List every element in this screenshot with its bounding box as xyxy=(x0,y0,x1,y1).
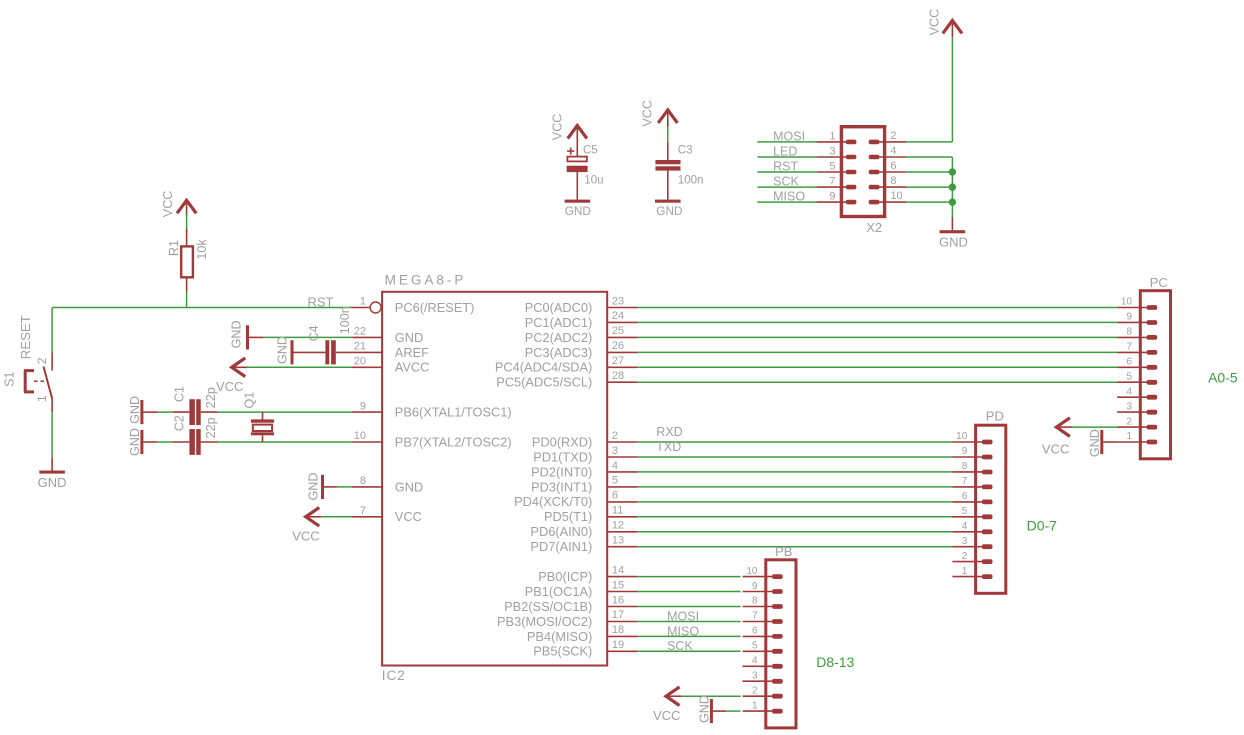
PD pin 2 pad xyxy=(982,559,993,564)
svg-text:26: 26 xyxy=(612,340,624,352)
X2 pin 6 pad xyxy=(869,170,880,175)
svg-text:GND: GND xyxy=(565,204,591,218)
svg-text:C5: C5 xyxy=(583,145,598,157)
PB pin 9 stub xyxy=(743,591,773,593)
svg-text:11: 11 xyxy=(612,505,623,517)
PD pin 4 stub xyxy=(952,531,982,533)
PC pin 2 stub xyxy=(1117,426,1147,428)
svg-text:VCC: VCC xyxy=(928,9,942,36)
PC pin 10 stub xyxy=(1117,307,1147,309)
svg-text:MOSI: MOSI xyxy=(773,129,805,143)
PB pin 4 pad xyxy=(772,664,783,669)
X2 pin 4 pad xyxy=(869,155,880,160)
svg-text:VCC: VCC xyxy=(653,708,680,723)
PD pin 8 stub xyxy=(952,471,982,473)
PB pin 2 stub xyxy=(743,695,773,697)
PB pin 1 pad xyxy=(772,709,783,714)
svg-text:TXD: TXD xyxy=(656,440,681,454)
ground (C2) xyxy=(140,430,143,454)
capacitor C1 xyxy=(172,411,189,413)
svg-text:MISO: MISO xyxy=(667,624,699,638)
PD pin 1 pad xyxy=(982,574,993,579)
PC pin 3 stub xyxy=(1117,411,1147,413)
IC2 pin 17 stub xyxy=(607,621,637,623)
svg-text:VCC: VCC xyxy=(1042,442,1069,457)
power flag VCC (R1) xyxy=(177,200,196,213)
X2 pin 7 pad xyxy=(846,185,857,190)
PC pin 4 stub xyxy=(1117,396,1147,398)
IC2 pin 25 stub xyxy=(607,336,637,338)
wire xyxy=(637,531,952,533)
svg-text:7: 7 xyxy=(360,505,366,517)
svg-text:10: 10 xyxy=(354,430,366,442)
wire xyxy=(637,621,741,623)
svg-text:RESET: RESET xyxy=(18,315,33,359)
wire xyxy=(637,336,1117,338)
wire xyxy=(337,486,352,488)
svg-text:SCK: SCK xyxy=(667,639,693,653)
svg-text:2: 2 xyxy=(612,430,618,442)
X2 pin 2 stub xyxy=(879,141,906,143)
IC2 pin 18 stub xyxy=(607,635,637,637)
svg-text:1: 1 xyxy=(360,296,366,308)
wire xyxy=(637,591,741,593)
X2 pin 5 stub xyxy=(817,171,847,173)
X2 pin 5 pad xyxy=(846,170,857,175)
power flag VCC (PC pin 2) xyxy=(1056,418,1070,437)
X2 pin 7 stub xyxy=(817,186,847,188)
PB pin 7 stub xyxy=(743,621,773,623)
PC pin 7 stub xyxy=(1117,351,1147,353)
PB pin 9 pad xyxy=(772,589,783,594)
wire net LED xyxy=(758,156,817,158)
PB pin 5 pad xyxy=(772,649,783,654)
svg-text:1: 1 xyxy=(829,130,835,142)
svg-text:9: 9 xyxy=(1126,312,1132,323)
X2 pin 4 stub xyxy=(879,156,906,158)
PC pin 6 stub xyxy=(1117,366,1147,368)
wire xyxy=(637,635,741,637)
svg-text:7: 7 xyxy=(1126,342,1132,353)
PC pin 3 pad xyxy=(1147,410,1158,415)
svg-text:10k: 10k xyxy=(195,239,209,260)
IC2 pin 22 stub xyxy=(352,336,382,338)
svg-text:10: 10 xyxy=(956,431,968,442)
wire xyxy=(263,336,352,338)
svg-text:1: 1 xyxy=(35,395,49,402)
svg-text:PD4(XCK/T0): PD4(XCK/T0) xyxy=(514,494,592,509)
wire xyxy=(186,214,188,233)
IC2 pin 6 stub xyxy=(607,501,637,503)
PC pin 9 pad xyxy=(1147,320,1158,325)
svg-text:2: 2 xyxy=(962,551,968,562)
wire net RST xyxy=(52,307,352,309)
power flag VCC (C5) xyxy=(568,126,587,139)
svg-text:1: 1 xyxy=(962,566,968,577)
svg-text:VCC: VCC xyxy=(216,379,243,394)
X2 pin 1 pad xyxy=(846,140,857,145)
PC pin 9 stub xyxy=(1117,321,1147,323)
wire xyxy=(186,292,188,308)
svg-text:PD2(INT0): PD2(INT0) xyxy=(531,464,592,479)
svg-text:3: 3 xyxy=(752,671,758,682)
svg-text:24: 24 xyxy=(612,310,624,322)
svg-text:13: 13 xyxy=(612,535,624,547)
IC2 pin 14 stub xyxy=(607,576,637,578)
wire X2 pin 8 xyxy=(906,186,952,188)
wire xyxy=(726,710,741,712)
wire xyxy=(637,546,952,548)
PD pin 2 stub xyxy=(952,561,982,563)
power flag VCC (X2) xyxy=(943,20,962,33)
svg-text:PB5(SCK): PB5(SCK) xyxy=(533,644,592,659)
wire xyxy=(637,501,952,503)
svg-text:PD6(AIN0): PD6(AIN0) xyxy=(530,524,592,539)
svg-text:C1: C1 xyxy=(173,386,187,402)
svg-text:6: 6 xyxy=(890,160,896,172)
ground (X2) xyxy=(951,217,953,230)
svg-text:2: 2 xyxy=(35,357,49,364)
connector PD xyxy=(976,425,1006,593)
svg-text:100n: 100n xyxy=(338,306,352,334)
svg-text:7: 7 xyxy=(962,476,968,487)
svg-text:5: 5 xyxy=(962,506,968,517)
svg-text:1: 1 xyxy=(752,700,758,711)
svg-text:GND: GND xyxy=(128,428,142,456)
wire xyxy=(637,381,1117,383)
svg-text:12: 12 xyxy=(612,520,624,532)
wire xyxy=(637,351,1117,353)
svg-text:10: 10 xyxy=(1121,297,1133,308)
svg-text:C2: C2 xyxy=(173,415,187,431)
wire X2 pin 10 xyxy=(906,201,952,203)
IC2 pin 27 stub xyxy=(607,366,637,368)
PD pin 1 stub xyxy=(952,576,982,578)
svg-text:19: 19 xyxy=(612,639,624,651)
ground (C1) xyxy=(140,400,143,424)
svg-text:PB6(XTAL1/TOSC1): PB6(XTAL1/TOSC1) xyxy=(395,405,512,420)
svg-text:GND: GND xyxy=(395,479,423,494)
PB pin 5 stub xyxy=(743,650,773,652)
PB pin 8 pad xyxy=(772,604,783,609)
svg-text:PC: PC xyxy=(1150,275,1168,290)
svg-text:PC3(ADC3): PC3(ADC3) xyxy=(525,345,593,360)
svg-text:GND: GND xyxy=(230,320,244,348)
svg-text:8: 8 xyxy=(752,596,758,607)
IC2 pin 10 stub xyxy=(352,441,382,443)
IC2 pin 15 stub xyxy=(607,591,637,593)
power flag VCC (PB pin 2) xyxy=(666,687,680,706)
wire xyxy=(682,695,741,697)
wire XTAL1 xyxy=(218,411,353,413)
ground (pin 22) xyxy=(246,325,249,349)
PB pin 1 stub xyxy=(743,710,773,712)
PD pin 3 pad xyxy=(982,544,993,549)
PC pin 8 stub xyxy=(1117,336,1147,338)
svg-text:22: 22 xyxy=(354,326,366,338)
svg-text:X2: X2 xyxy=(866,220,882,235)
PD pin 10 pad xyxy=(982,440,993,445)
IC2 pin 2 stub xyxy=(607,441,637,443)
capacitor C3 xyxy=(655,160,680,164)
connector X2 xyxy=(841,127,884,217)
svg-text:3: 3 xyxy=(1126,401,1132,412)
capacitor C5 (polarized) xyxy=(570,148,572,155)
wire xyxy=(637,307,1117,309)
PC pin 6 pad xyxy=(1147,365,1158,370)
switch S1 xyxy=(51,352,53,370)
svg-text:9: 9 xyxy=(829,191,835,203)
svg-text:PC0(ADC0): PC0(ADC0) xyxy=(525,300,593,315)
PC pin 5 pad xyxy=(1147,380,1158,385)
PD pin 4 pad xyxy=(982,529,993,534)
X2 pin 9 pad xyxy=(846,200,857,205)
svg-text:MEGA8-P: MEGA8-P xyxy=(385,273,467,288)
PC pin 4 pad xyxy=(1147,395,1158,400)
svg-text:GND: GND xyxy=(38,475,67,490)
svg-text:A0-5: A0-5 xyxy=(1208,369,1238,385)
svg-text:S1: S1 xyxy=(3,371,17,386)
svg-text:C3: C3 xyxy=(678,145,693,157)
PB pin 6 stub xyxy=(743,635,773,637)
svg-text:PC2(ADC2): PC2(ADC2) xyxy=(525,330,593,345)
svg-text:6: 6 xyxy=(962,491,968,502)
wire xyxy=(637,441,952,443)
IC2 pin 28 stub xyxy=(607,381,637,383)
svg-text:4: 4 xyxy=(962,521,968,532)
svg-text:PB3(MOSI/OC2): PB3(MOSI/OC2) xyxy=(497,614,592,629)
wire xyxy=(637,471,952,473)
wire xyxy=(667,123,669,127)
IC2 pin 19 stub xyxy=(607,650,637,652)
junction xyxy=(949,168,956,175)
X2 pin 6 stub xyxy=(879,171,906,173)
PB pin 10 stub xyxy=(743,576,773,578)
svg-text:MOSI: MOSI xyxy=(667,610,699,624)
IC2 pin 1 stub (/RESET bubble) xyxy=(352,307,370,309)
svg-text:4: 4 xyxy=(752,656,758,667)
svg-text:1: 1 xyxy=(1126,431,1132,442)
svg-text:AVCC: AVCC xyxy=(395,360,430,375)
PC pin 7 pad xyxy=(1147,350,1158,355)
IC2 pin 13 stub xyxy=(607,546,637,548)
svg-text:18: 18 xyxy=(612,624,624,636)
svg-text:2: 2 xyxy=(752,685,758,696)
PB pin 8 stub xyxy=(743,606,773,608)
PB pin 4 stub xyxy=(743,665,773,667)
ground (pin 8) xyxy=(321,475,324,499)
junction xyxy=(949,183,956,190)
svg-text:10: 10 xyxy=(890,190,902,202)
connector PC xyxy=(1140,291,1170,459)
junction xyxy=(949,198,956,205)
PD pin 5 pad xyxy=(982,514,993,519)
svg-text:10: 10 xyxy=(746,566,758,577)
svg-text:4: 4 xyxy=(890,145,896,157)
ground (C4) xyxy=(291,340,294,364)
wire xyxy=(637,576,741,578)
svg-text:VCC: VCC xyxy=(292,529,319,544)
svg-text:8: 8 xyxy=(890,175,896,187)
PB pin 7 pad xyxy=(772,619,783,624)
IC2 pin 5 stub xyxy=(607,486,637,488)
svg-text:D0-7: D0-7 xyxy=(1027,517,1058,533)
svg-text:5: 5 xyxy=(1126,371,1132,382)
svg-text:VCC: VCC xyxy=(641,100,655,127)
power flag VCC (C3) xyxy=(658,110,677,123)
wire X2 pin 6 xyxy=(906,171,952,173)
svg-text:16: 16 xyxy=(612,594,624,606)
svg-text:15: 15 xyxy=(612,579,624,591)
svg-text:SCK: SCK xyxy=(773,175,799,189)
svg-text:PC1(ADC1): PC1(ADC1) xyxy=(525,315,593,330)
svg-text:C4: C4 xyxy=(307,325,321,341)
svg-text:LED: LED xyxy=(773,145,797,159)
wire xyxy=(637,366,1117,368)
svg-text:7: 7 xyxy=(829,176,835,188)
svg-text:PB4(MISO): PB4(MISO) xyxy=(527,629,592,644)
PD pin 9 stub xyxy=(952,456,982,458)
X2 pin 2 pad xyxy=(869,140,880,145)
PB pin 10 pad xyxy=(772,574,783,579)
wire xyxy=(321,516,352,518)
IC2 pin 7 stub xyxy=(352,516,382,518)
wire xyxy=(637,650,741,652)
resistor R1 xyxy=(186,229,188,246)
PD pin 8 pad xyxy=(982,470,993,475)
IC2 pin 16 stub xyxy=(607,606,637,608)
svg-text:2: 2 xyxy=(1126,416,1132,427)
svg-text:PC5(ADC5/SCL): PC5(ADC5/SCL) xyxy=(496,375,592,390)
svg-text:AREF: AREF xyxy=(395,345,429,360)
svg-text:3: 3 xyxy=(829,146,835,158)
IC2 pin 20 stub xyxy=(352,366,382,368)
svg-text:PD1(TXD): PD1(TXD) xyxy=(533,449,592,464)
svg-text:VCC: VCC xyxy=(395,509,422,524)
svg-text:3: 3 xyxy=(612,445,618,457)
PC pin 10 pad xyxy=(1147,305,1158,310)
PB pin 6 pad xyxy=(772,634,783,639)
PD pin 5 stub xyxy=(952,516,982,518)
IC2 pin 4 stub xyxy=(607,471,637,473)
svg-text:PD: PD xyxy=(986,408,1004,423)
svg-text:PB0(ICP): PB0(ICP) xyxy=(538,569,592,584)
svg-text:5: 5 xyxy=(752,641,758,652)
wire xyxy=(576,138,578,157)
wire xyxy=(157,411,172,413)
ground (C3) xyxy=(655,200,681,203)
wire xyxy=(247,366,352,368)
svg-text:GND: GND xyxy=(656,204,682,218)
wire net MISO xyxy=(758,201,817,203)
ground (C5) xyxy=(565,200,591,203)
svg-text:6: 6 xyxy=(1126,357,1132,368)
wire xyxy=(637,606,741,608)
X2 pin 3 stub xyxy=(817,156,847,158)
svg-text:17: 17 xyxy=(612,609,624,621)
IC2 pin 24 stub xyxy=(607,321,637,323)
X2 pin 10 pad xyxy=(869,200,880,205)
power flag VCC (pin 7) xyxy=(306,508,320,527)
svg-text:4: 4 xyxy=(1126,386,1132,397)
PD pin 7 stub xyxy=(952,486,982,488)
svg-text:28: 28 xyxy=(612,370,624,382)
wire net MOSI xyxy=(758,141,817,143)
wire GND rail X2 xyxy=(906,156,952,158)
svg-text:6: 6 xyxy=(752,626,758,637)
svg-text:GND: GND xyxy=(698,695,712,723)
PD pin 9 pad xyxy=(982,455,993,460)
svg-text:R1: R1 xyxy=(167,240,181,256)
IC2 pin 3 stub xyxy=(607,456,637,458)
PB pin 3 stub xyxy=(743,680,773,682)
crystal Q1 xyxy=(262,412,264,420)
svg-text:VCC: VCC xyxy=(551,114,565,141)
wire xyxy=(637,321,1117,323)
connector PB xyxy=(766,560,796,728)
svg-text:RST: RST xyxy=(308,295,334,310)
svg-text:8: 8 xyxy=(360,475,366,487)
svg-text:PD5(T1): PD5(T1) xyxy=(544,509,592,524)
svg-text:GND: GND xyxy=(1088,429,1102,457)
svg-text:PB2(SS/OC1B): PB2(SS/OC1B) xyxy=(504,599,592,614)
svg-text:GND: GND xyxy=(939,235,968,250)
svg-text:6: 6 xyxy=(612,490,618,502)
wire xyxy=(1072,426,1117,428)
svg-text:PB: PB xyxy=(775,544,792,559)
svg-text:8: 8 xyxy=(962,461,968,472)
X2 pin 10 stub xyxy=(879,201,906,203)
svg-text:8: 8 xyxy=(1126,327,1132,338)
svg-text:PB1(OC1A): PB1(OC1A) xyxy=(525,584,593,599)
svg-text:9: 9 xyxy=(360,400,366,412)
wire net SCK xyxy=(758,186,817,188)
PB pin 3 pad xyxy=(772,679,783,684)
svg-text:22p: 22p xyxy=(204,417,218,438)
IC2 pin 12 stub xyxy=(607,531,637,533)
X2 pin 8 pad xyxy=(869,185,880,190)
X2 pin 1 stub xyxy=(817,141,847,143)
PC pin 1 pad xyxy=(1147,440,1158,445)
svg-text:MISO: MISO xyxy=(773,190,805,204)
wire xyxy=(637,486,952,488)
wire XTAL2 xyxy=(218,441,353,443)
ground (PB pin 1) xyxy=(710,699,713,723)
svg-text:7: 7 xyxy=(752,611,758,622)
PD pin 6 pad xyxy=(982,500,993,505)
svg-text:5: 5 xyxy=(612,475,618,487)
wire xyxy=(637,456,952,458)
svg-text:GND: GND xyxy=(275,336,289,364)
svg-text:10u: 10u xyxy=(584,175,603,187)
svg-text:3: 3 xyxy=(962,536,968,547)
X2 pin 8 stub xyxy=(879,186,906,188)
wire VCC to X2 pin 2 xyxy=(906,141,952,143)
IC2 pin 23 stub xyxy=(607,307,637,309)
svg-text:9: 9 xyxy=(962,446,968,457)
PD pin 10 stub xyxy=(952,441,982,443)
IC2 pin 8 stub xyxy=(352,486,382,488)
IC IC2 MEGA8-P xyxy=(382,292,607,666)
wire xyxy=(157,441,172,443)
svg-text:2: 2 xyxy=(890,130,896,142)
svg-text:14: 14 xyxy=(612,564,624,576)
svg-text:27: 27 xyxy=(612,355,624,367)
svg-text:PD3(INT1): PD3(INT1) xyxy=(531,479,592,494)
PD pin 6 stub xyxy=(952,501,982,503)
power flag VCC (AVCC) xyxy=(232,358,246,377)
svg-text:GND: GND xyxy=(395,330,423,345)
